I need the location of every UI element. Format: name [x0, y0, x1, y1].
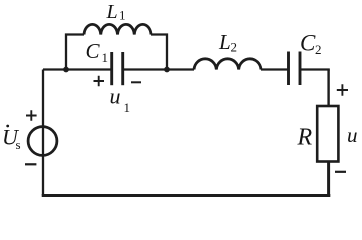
- wire main top: L2 to C2 left plate: [261, 68, 289, 70]
- minus sign of u1: [131, 81, 141, 83]
- wire right rail upper: [327, 70, 329, 107]
- capacitor C2 right plate: [299, 52, 302, 86]
- capacitor C1 left plate: [110, 52, 113, 85]
- svg-text:L: L: [106, 1, 118, 23]
- wire main top: C2 right plate to right corner: [300, 68, 330, 70]
- wire parallel branch left riser: [66, 35, 84, 70]
- svg-text:1: 1: [102, 50, 109, 65]
- svg-text:2: 2: [315, 42, 322, 57]
- wire bottom rail: [42, 194, 331, 197]
- inductor L2: [194, 59, 261, 70]
- plus sign of u1: [94, 76, 105, 86]
- plus sign of u: [337, 84, 348, 95]
- svg-text:2: 2: [231, 40, 238, 55]
- junction node right: [164, 67, 170, 73]
- svg-text:L: L: [218, 30, 231, 54]
- wire parallel branch right riser: [151, 35, 167, 70]
- wire right rail lower: [327, 162, 330, 197]
- svg-text:u: u: [347, 123, 358, 147]
- junction node left: [63, 67, 69, 73]
- inductor L1: [84, 24, 151, 34]
- svg-text:C: C: [300, 31, 316, 56]
- resistor R: [317, 106, 338, 162]
- svg-text:1: 1: [124, 100, 131, 115]
- svg-text:1: 1: [119, 8, 126, 23]
- capacitor C1 right plate: [121, 52, 124, 85]
- svg-text:R: R: [297, 124, 313, 150]
- minus sign of u: [335, 171, 346, 173]
- wire left rail: [42, 70, 44, 196]
- plus sign of Us: [26, 110, 37, 121]
- capacitor C2 left plate: [287, 52, 290, 86]
- svg-text:C: C: [86, 39, 101, 63]
- wire main top: source to C1 left plate: [43, 68, 112, 70]
- svg-text:u: u: [110, 84, 121, 109]
- svg-text:s: s: [16, 137, 21, 152]
- wire main top: C1 right plate to L2: [123, 68, 194, 70]
- voltage source Us: [28, 127, 57, 156]
- minus sign of Us: [25, 163, 36, 165]
